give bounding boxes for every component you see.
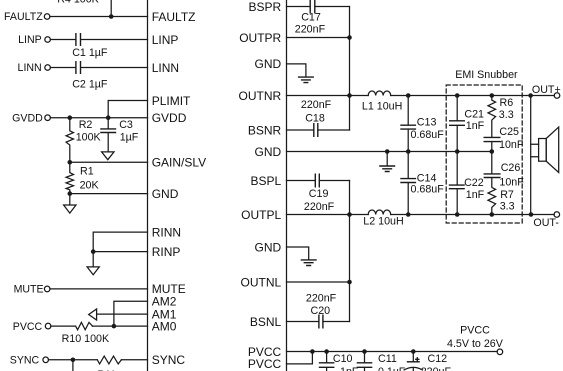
svg-text:FAULTZ: FAULTZ — [4, 11, 43, 23]
node AM0/R10 — [112, 324, 117, 329]
svg-text:BSNR: BSNR — [248, 123, 282, 137]
resistor R11 — [97, 356, 147, 371]
svg-text:GND: GND — [255, 145, 282, 159]
terminal OUT- — [554, 212, 560, 218]
svg-text:BSPL: BSPL — [251, 174, 282, 188]
wire GND (1) — [287, 64, 306, 77]
IC U1 left edge — [147, 1, 149, 371]
svg-text:C12: C12 — [428, 353, 448, 365]
svg-text:LINP: LINP — [152, 33, 179, 47]
capacitor C2 — [72, 61, 147, 91]
wire RINN — [93, 232, 147, 252]
wire PVCC (top) — [287, 351, 498, 353]
ground (analog triangle) below R1 — [64, 194, 76, 214]
wire OUTPL to L2 — [287, 214, 369, 216]
svg-text:GND: GND — [255, 240, 282, 254]
node snubber C21 top — [455, 93, 460, 98]
capacitor C10 — [319, 352, 359, 371]
ground (bars) — [301, 260, 317, 266]
svg-text:MUTE: MUTE — [14, 284, 44, 296]
svg-text:R10 100K: R10 100K — [62, 333, 110, 345]
node C12 — [411, 349, 416, 354]
svg-text:GAIN/SLV: GAIN/SLV — [152, 156, 206, 170]
resistor R10 — [62, 322, 148, 344]
capacitor C17 — [295, 0, 350, 36]
svg-text:220nF: 220nF — [301, 99, 332, 111]
svg-text:1nF: 1nF — [466, 120, 485, 132]
ground (bars) — [298, 77, 314, 83]
inductor L2 — [363, 210, 403, 228]
svg-text:100K: 100K — [76, 131, 102, 143]
svg-text:C18: C18 — [305, 113, 325, 125]
svg-text:PLIMIT: PLIMIT — [152, 94, 191, 108]
svg-text:C11: C11 — [378, 353, 397, 365]
capacitor C19 — [304, 174, 350, 214]
svg-text:C3: C3 — [119, 119, 133, 131]
svg-text:R2: R2 — [79, 119, 93, 131]
svg-text:3.3: 3.3 — [499, 109, 514, 121]
svg-text:C25: C25 — [499, 126, 519, 138]
wire BSNR to C18 — [287, 129, 314, 131]
svg-text:0.1uF: 0.1uF — [378, 366, 406, 371]
svg-text:R6: R6 — [500, 97, 514, 109]
svg-text:PVCC: PVCC — [248, 357, 282, 371]
wire MUTE — [50, 288, 148, 290]
svg-text:LINP: LINP — [18, 34, 42, 46]
node FAULTZ junction — [109, 14, 114, 19]
wire GND pin — [70, 193, 148, 195]
svg-text:C20: C20 — [311, 305, 331, 317]
svg-text:C1 1µF: C1 1µF — [72, 47, 108, 59]
svg-text:C14: C14 — [417, 172, 437, 184]
capacitor C3 — [100, 118, 139, 152]
svg-text:OUTNL: OUTNL — [241, 275, 282, 289]
EMI snubber dashed box — [446, 85, 522, 223]
capacitor C20 — [306, 293, 350, 329]
node GVDD/C3 — [106, 115, 111, 120]
wire GVDD — [50, 117, 147, 119]
capacitor C11 — [357, 352, 406, 371]
capacitor C26 — [484, 152, 525, 189]
wire GND (3) — [287, 247, 309, 260]
svg-text:AM0: AM0 — [152, 319, 177, 333]
resistor R6 — [488, 96, 514, 138]
svg-text:C22: C22 — [464, 177, 484, 189]
svg-text:220nF: 220nF — [295, 24, 326, 36]
svg-text:EMI Snubber: EMI Snubber — [455, 69, 518, 81]
svg-text:FAULTZ: FAULTZ — [152, 10, 196, 24]
svg-text:3.3: 3.3 — [500, 200, 515, 212]
terminal OUT+ — [554, 93, 560, 99]
node OUTNL — [347, 280, 352, 285]
wire L2 to OUT- — [391, 214, 555, 216]
node PVCC tie — [310, 349, 315, 354]
terminal MUTE — [44, 286, 50, 292]
svg-text:1µF: 1µF — [120, 131, 139, 143]
svg-text:4.5V to 26V: 4.5V to 26V — [447, 338, 504, 350]
node SYNC — [71, 358, 76, 363]
node OUTPR — [347, 35, 352, 40]
svg-text:10nF: 10nF — [499, 139, 524, 151]
svg-text:GND: GND — [152, 187, 179, 201]
wire output tie left channel (PBTL) — [349, 181, 351, 322]
arrow (open, to AM1 off-page) — [89, 309, 97, 320]
svg-text:BSNL: BSNL — [250, 315, 282, 329]
svg-text:10nF: 10nF — [499, 177, 524, 189]
node L1/C13 — [406, 93, 411, 98]
terminal PVCC — [497, 349, 503, 355]
svg-text:0.68uF: 0.68uF — [411, 129, 445, 141]
svg-text:R7: R7 — [500, 189, 514, 201]
capacitor C22 — [449, 152, 485, 215]
svg-text:C19: C19 — [309, 188, 329, 200]
node GND/C13/C14 — [406, 149, 411, 154]
svg-text:PVCC: PVCC — [13, 321, 43, 333]
terminal LINN — [45, 65, 51, 71]
wire BSPL to C19 — [287, 180, 316, 182]
capacitor C25 — [484, 126, 524, 152]
node snubber C25 mid — [490, 149, 495, 154]
capacitor C18 — [301, 99, 350, 137]
svg-text:LINN: LINN — [152, 61, 179, 75]
svg-text:C21: C21 — [464, 108, 484, 120]
node snubber R6 top — [490, 93, 495, 98]
svg-text:L2 10uH: L2 10uH — [363, 216, 403, 228]
svg-text:PVCC: PVCC — [460, 325, 490, 337]
svg-text:GND: GND — [255, 57, 282, 71]
svg-text:OUTPR: OUTPR — [239, 31, 281, 45]
node speaker top — [528, 93, 533, 98]
wire GAIN/SLV — [70, 161, 148, 163]
wire L1 to OUT+ — [391, 95, 555, 97]
svg-text:R4 100K: R4 100K — [57, 0, 99, 6]
inductor L1 — [362, 91, 402, 112]
svg-text:OUT-: OUT- — [533, 217, 559, 229]
terminal GVDD — [45, 115, 51, 121]
wire output tie right channel (PBTL) — [349, 7, 351, 131]
wire SYNC — [48, 359, 97, 361]
wire OUTNR to L1 — [287, 95, 369, 97]
node OUTPL — [347, 212, 352, 217]
svg-text:L1 10uH: L1 10uH — [362, 100, 402, 112]
wire GND (2) bus — [287, 151, 492, 153]
node R1/GND — [67, 191, 72, 196]
node RINN/RINP — [91, 249, 96, 254]
node C10 — [324, 349, 329, 354]
svg-text:RINN: RINN — [152, 225, 181, 239]
terminal LINP — [45, 37, 51, 43]
svg-text:1nF: 1nF — [466, 189, 485, 201]
svg-text:C10: C10 — [333, 353, 353, 365]
node snubber C22 bot — [455, 212, 460, 217]
resistor R7 — [488, 178, 515, 215]
node GVDD/R2 — [67, 115, 72, 120]
node speaker bottom — [529, 212, 534, 217]
wire SYNC stub down (cut off) — [72, 360, 74, 371]
capacitor C21 — [449, 96, 485, 152]
resistor R1 — [66, 162, 99, 193]
svg-text:1nF: 1nF — [340, 366, 359, 371]
wire PVCC to R10 — [51, 325, 75, 327]
svg-text:GVDD: GVDD — [12, 112, 43, 124]
svg-text:GVDD: GVDD — [152, 111, 187, 125]
svg-text:C2 1µF: C2 1µF — [72, 79, 108, 91]
svg-text:SYNC: SYNC — [10, 355, 40, 367]
speaker LS1 — [531, 96, 559, 215]
node OUTNR — [347, 93, 352, 98]
svg-text:SYNC: SYNC — [152, 353, 186, 367]
IC U1 right edge — [286, 1, 288, 371]
wire BSNL to C20 — [287, 321, 319, 323]
node GND/gnd-symbol — [385, 149, 390, 154]
wire OUTNL — [287, 281, 350, 283]
svg-text:C13: C13 — [417, 117, 437, 129]
node C11 — [362, 349, 367, 354]
node L2/C14 — [406, 212, 411, 217]
svg-text:R1: R1 — [80, 166, 94, 178]
node snubber R7 bot — [490, 212, 495, 217]
wire RINP — [93, 251, 147, 253]
wire BSPR to C17 — [287, 6, 311, 8]
capacitor C14 — [400, 152, 444, 215]
svg-text:220nF: 220nF — [304, 201, 335, 213]
terminal PVCC (left) — [45, 323, 51, 329]
ground (analog triangle) below C3 — [102, 152, 114, 160]
svg-text:0.68uF: 0.68uF — [411, 184, 445, 196]
wire PVCC (bottom) — [287, 352, 313, 364]
wire FAULTZ vertical from R4 — [110, 1, 112, 17]
resistor R2 — [66, 118, 101, 163]
terminal FAULTZ — [44, 14, 50, 20]
svg-text:220uF: 220uF — [421, 366, 452, 371]
wire AM1 — [97, 313, 148, 315]
svg-text:20K: 20K — [80, 179, 100, 191]
ground (analog triangle) below RINP — [87, 252, 99, 275]
svg-text:OUT+: OUT+ — [532, 84, 561, 96]
svg-text:RINP: RINP — [152, 245, 181, 259]
terminal SYNC — [43, 357, 49, 363]
svg-text:BSPR: BSPR — [249, 0, 282, 14]
svg-text:LINN: LINN — [18, 62, 42, 74]
node GAIN/R1 — [67, 160, 72, 165]
svg-text:OUTNR: OUTNR — [239, 89, 282, 103]
capacitor C1 — [72, 33, 147, 59]
svg-text:220nF: 220nF — [306, 293, 337, 305]
svg-text:OUTPL: OUTPL — [241, 208, 281, 222]
wire PLIMIT to GVDD node — [108, 101, 147, 118]
wire LINN to C2 — [50, 67, 75, 69]
wire AM2 — [114, 301, 148, 326]
wire LINP to C1 — [50, 39, 75, 41]
capacitor C12 (polarized) — [404, 352, 451, 371]
node snubber C21 mid — [455, 149, 460, 154]
wire OUTPR — [287, 37, 350, 39]
ground (bars) — [379, 152, 395, 172]
capacitor C13 — [400, 96, 444, 152]
svg-text:C26: C26 — [501, 162, 521, 174]
svg-text:C17: C17 — [301, 12, 321, 24]
wire FAULTZ — [50, 16, 148, 18]
